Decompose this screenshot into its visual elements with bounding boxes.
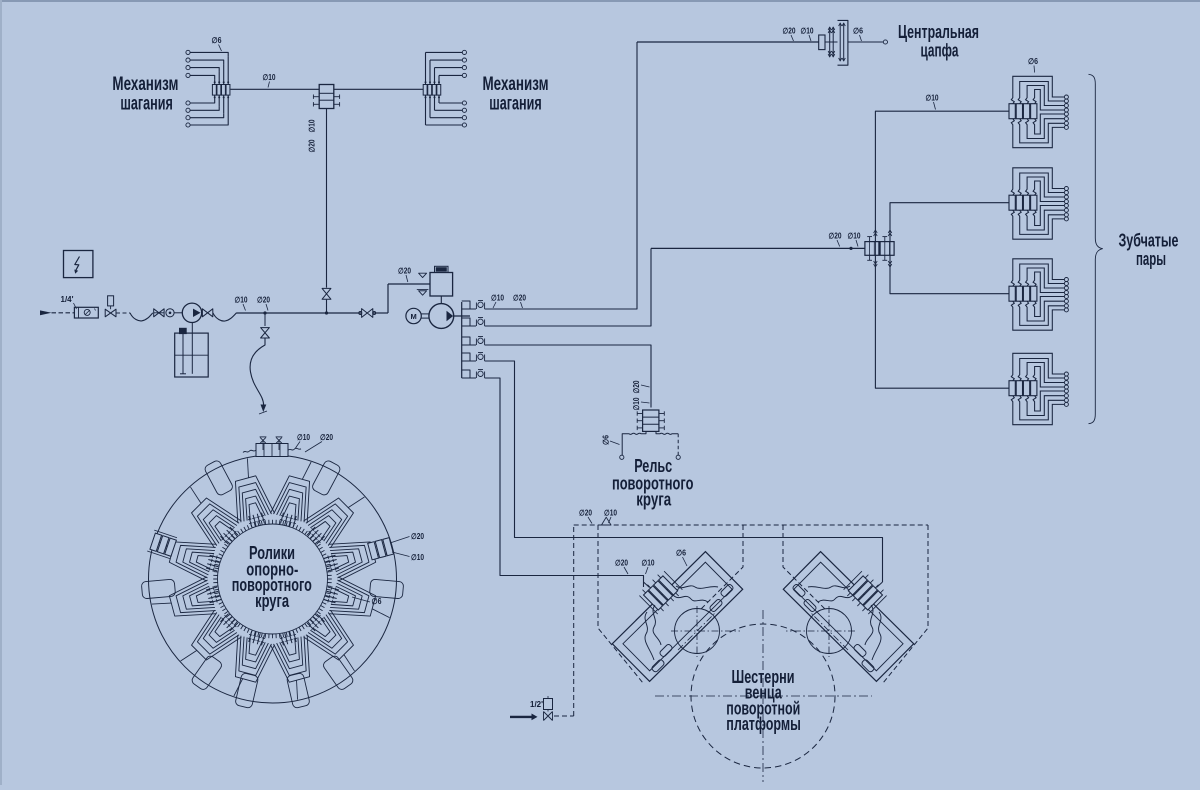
wire feed to gear distributor: [651, 247, 865, 249]
terminal: [462, 116, 466, 120]
feeder maze gear pair 1: [1009, 76, 1068, 147]
svg-text:∅10: ∅10: [297, 433, 310, 442]
svg-text:Механизм: Механизм: [483, 74, 549, 95]
wire: [174, 312, 182, 314]
outer loop: [311, 459, 342, 496]
terminal: [462, 123, 466, 127]
feeder maze gear pair 2: [1009, 168, 1068, 239]
wire outlet top: [425, 52, 427, 84]
inlet arrow 1/2: [510, 714, 538, 721]
outer loop: [203, 459, 234, 496]
ring gear dashed circle: [691, 624, 835, 768]
wire outlet top: [429, 60, 431, 84]
feeder maze gear pair 3: [1009, 259, 1068, 330]
dashed drop mid-left: [700, 525, 743, 610]
gear distributor block: [865, 242, 879, 256]
valve: [544, 712, 553, 721]
lubricator station box: [430, 273, 453, 297]
terminal: [186, 73, 190, 77]
manifold fitting: [475, 372, 477, 379]
roller lube cluster: [298, 605, 373, 680]
branch valve V3: [264, 313, 266, 326]
wire main line: [237, 312, 362, 314]
svg-text:∅10: ∅10: [642, 559, 655, 568]
svg-text:∅20: ∅20: [579, 509, 592, 518]
flow arrow: [602, 517, 612, 525]
outer loop: [322, 654, 355, 691]
terminal: [620, 455, 624, 459]
svg-text:1/4': 1/4': [61, 295, 74, 304]
wire outlet bottom: [425, 95, 427, 125]
vent symbol: [419, 273, 427, 277]
svg-text:круга: круга: [636, 490, 672, 510]
wire to gear pair 3: [890, 255, 1009, 293]
top feeder valves: [262, 440, 264, 450]
terminal: [462, 50, 466, 54]
svg-text:пары: пары: [1136, 249, 1166, 269]
manifold fitting: [475, 303, 477, 310]
wire outlet1 to central pin: [485, 42, 637, 309]
roller ring inner circle: [218, 524, 328, 634]
wire outlet top: [214, 79, 216, 84]
outer loop: [369, 579, 403, 599]
wire: [52, 312, 75, 314]
wire outlet3 to rail feeder: [485, 345, 651, 408]
svg-text:∅20: ∅20: [398, 267, 411, 276]
svg-text:шагания: шагания: [120, 93, 173, 114]
svg-text:∅10: ∅10: [801, 27, 814, 36]
svg-text:Зубчатые: Зубчатые: [1119, 231, 1179, 251]
terminal: [186, 108, 190, 112]
terminal: [186, 58, 190, 62]
svg-text:∅10: ∅10: [263, 73, 276, 82]
wire d6: [848, 41, 884, 43]
outer loop: [190, 654, 223, 691]
level symbol: [417, 289, 429, 291]
wire outlet bottom: [223, 95, 225, 114]
roller lube cluster: [298, 479, 373, 554]
valve V4: [362, 309, 373, 318]
wire to gear pair 1: [875, 111, 1008, 241]
wire: [454, 315, 470, 317]
terminal: [883, 40, 887, 44]
svg-text:круга: круга: [255, 591, 290, 611]
wire d20: [637, 41, 819, 43]
svg-text:∅10: ∅10: [235, 296, 248, 305]
solenoid valve V1: [108, 296, 114, 306]
roller top feeder block: [256, 444, 288, 457]
hose wave right: [288, 448, 301, 450]
svg-text:∅10: ∅10: [308, 119, 317, 132]
wire rail left outlet: [622, 431, 646, 455]
motor M1: [406, 308, 421, 323]
svg-text:∅20: ∅20: [411, 532, 424, 541]
roller lube cluster: [321, 529, 396, 583]
dashed drop left: [598, 525, 643, 683]
svg-text:∅6: ∅6: [602, 435, 611, 445]
svg-text:1/2': 1/2': [530, 700, 543, 709]
outer loop: [141, 579, 175, 599]
svg-text:∅20: ∅20: [615, 559, 628, 568]
dashed wire inlet: [554, 715, 574, 717]
terminal: [186, 123, 190, 127]
wire outlet5 to left gear assembly: [485, 378, 644, 587]
wire outlet bottom: [214, 95, 216, 99]
svg-text:Центральная: Центральная: [898, 22, 979, 42]
svg-text:∅20: ∅20: [829, 232, 842, 241]
roller lube cluster: [149, 575, 224, 629]
terminal: [462, 66, 466, 70]
wire outlet top: [438, 75, 440, 84]
hose H2: [213, 313, 237, 321]
wire outlet bottom: [434, 95, 436, 110]
svg-text:∅10: ∅10: [491, 294, 504, 303]
terminal: [676, 455, 680, 459]
brace gear pairs: [1089, 74, 1103, 423]
feeder block central pin: [819, 35, 825, 50]
flow meter FM1: [74, 307, 98, 318]
feed into left assembly feeder: [644, 576, 650, 588]
svg-text:∅10: ∅10: [926, 94, 939, 103]
roller lube cluster: [269, 455, 323, 530]
roller lube cluster: [222, 455, 276, 530]
roller left feeder block: [147, 530, 177, 559]
svg-text:M: M: [410, 312, 416, 321]
svg-text:∅10: ∅10: [604, 509, 617, 518]
fitting: [544, 699, 553, 710]
svg-text:∅10: ∅10: [411, 553, 424, 562]
pump P2: [429, 304, 454, 329]
gear assembly right: [783, 552, 913, 682]
wire to gear pair 4: [875, 255, 1008, 388]
wire outlet bottom: [227, 95, 229, 121]
wire outlet4 to right gear assembly: [485, 361, 883, 582]
wire outlet top: [227, 56, 229, 84]
svg-text:∅6: ∅6: [676, 549, 686, 558]
terminal: [462, 73, 466, 77]
svg-text:∅20: ∅20: [632, 380, 641, 393]
dashed drop mid-right: [783, 525, 826, 610]
svg-text:∅6: ∅6: [212, 36, 222, 45]
roller right feeder block: [368, 538, 394, 560]
wire d10 main: [231, 88, 320, 90]
electric supply box: [64, 251, 93, 278]
svg-text:∅20: ∅20: [783, 27, 796, 36]
svg-text:Механизм: Механизм: [112, 74, 178, 95]
coupling: [421, 313, 429, 315]
manifold fitting: [475, 339, 477, 346]
wire outlet top: [434, 68, 436, 85]
wire outlet bottom: [218, 95, 220, 106]
outer loop: [286, 673, 310, 709]
wire outlet top: [218, 72, 220, 85]
rail feeder block: [643, 410, 659, 431]
wire: [373, 312, 388, 314]
feed into right assembly feeder: [877, 582, 883, 588]
wire down to main line: [326, 109, 328, 288]
feeder maze gear pair 4: [1009, 353, 1068, 424]
terminal: [186, 101, 190, 105]
svg-text:∅20: ∅20: [308, 139, 317, 152]
wire: [440, 296, 442, 304]
terminal: [186, 116, 190, 120]
terminal: [186, 50, 190, 54]
roller lube cluster: [321, 575, 396, 629]
check valve CV1: [154, 309, 164, 317]
feeder block walking mechanism left: [212, 85, 216, 96]
gauge G1: [166, 309, 174, 317]
wire outlet bottom: [429, 95, 431, 118]
manifold fitting: [475, 355, 477, 362]
svg-text:шагания: шагания: [489, 93, 542, 114]
svg-text:платформы: платформы: [726, 714, 801, 734]
wire: [116, 312, 130, 314]
hose H1: [130, 313, 153, 321]
junction block J1: [319, 85, 334, 109]
svg-text:∅10: ∅10: [848, 232, 861, 241]
hose wave left: [243, 450, 256, 452]
svg-text:∅6: ∅6: [1028, 57, 1038, 66]
roller ring outer circle: [149, 455, 397, 703]
terminal: [462, 58, 466, 62]
svg-text:∅20: ∅20: [513, 294, 526, 303]
wire to gear pair 2: [890, 203, 1009, 242]
svg-text:∅6: ∅6: [853, 27, 863, 36]
tank T1: [175, 333, 209, 377]
svg-text:∅10: ∅10: [632, 397, 641, 410]
manifold: [461, 302, 463, 378]
roller lube cluster: [222, 628, 276, 703]
terminal: [462, 101, 466, 105]
wire outlet2 to gear distributor: [485, 248, 651, 326]
wire outlet bottom: [438, 95, 440, 103]
pump P1: [182, 303, 201, 322]
wire rail right outlet: [656, 431, 678, 434]
valve V2: [202, 309, 212, 317]
dashed drop right: [883, 525, 928, 683]
svg-text:∅20: ∅20: [257, 296, 270, 305]
feeder block walking mechanism right: [423, 85, 427, 96]
svg-text:цапфа: цапфа: [921, 41, 960, 61]
svg-text:∅20: ∅20: [320, 433, 333, 442]
outer loop: [235, 673, 259, 709]
gear assembly left: [612, 552, 742, 682]
valve V5: [322, 288, 331, 299]
roller lube cluster: [172, 605, 247, 680]
terminal: [462, 108, 466, 112]
inlet arrow: [40, 310, 52, 315]
leader lines: [390, 537, 410, 544]
suction pipe: [191, 323, 193, 374]
svg-text:∅6: ∅6: [372, 597, 382, 606]
terminal: [186, 66, 190, 70]
wire outlet top: [223, 64, 225, 84]
roller lube cluster: [269, 628, 323, 703]
roller lube cluster: [149, 529, 224, 583]
wire d10: [334, 88, 423, 90]
roller lube cluster: [172, 479, 247, 554]
manifold fitting: [475, 320, 477, 327]
dashed wire header: [574, 524, 928, 526]
centerlines: [655, 610, 872, 782]
hose S-curve to roller ring: [250, 338, 265, 408]
